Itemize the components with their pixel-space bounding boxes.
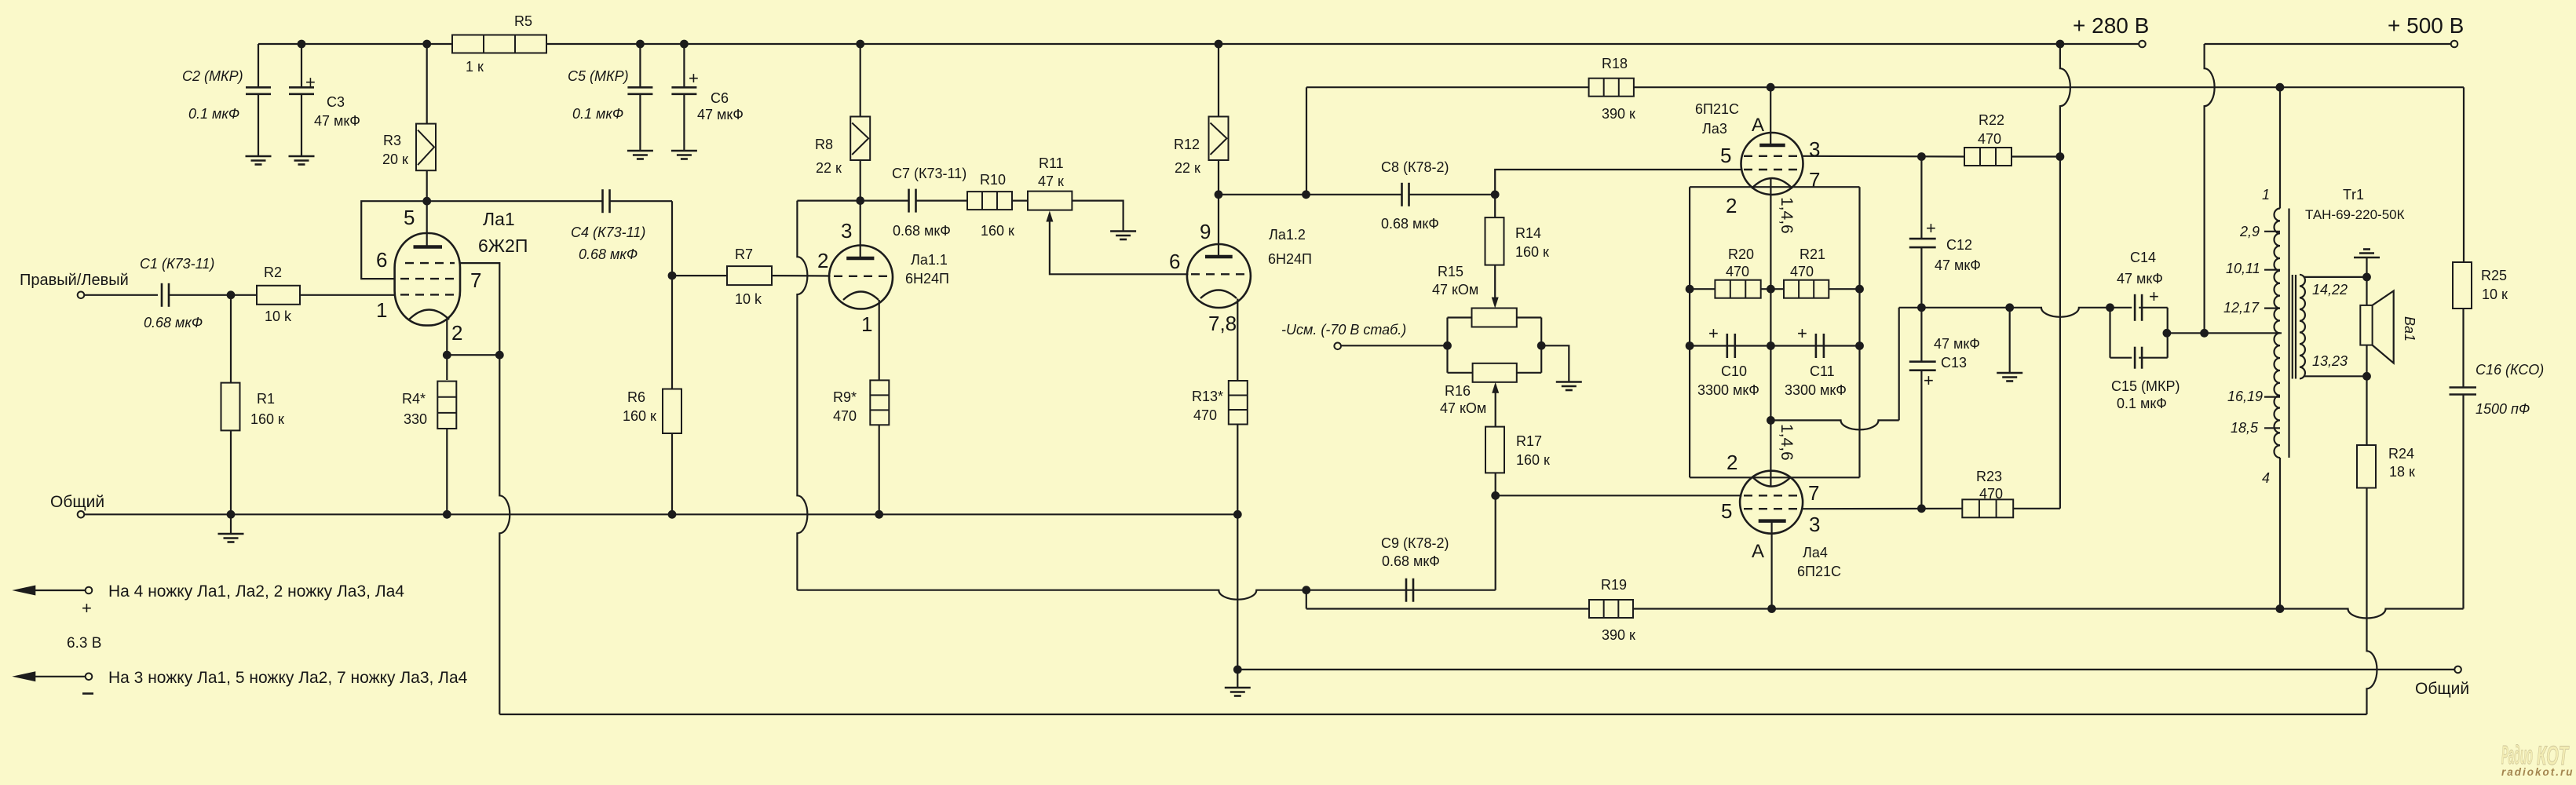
svg-text:+: +: [1708, 323, 1719, 343]
wire -Ucm to loop: [1341, 345, 1447, 346]
svg-text:160 к: 160 к: [250, 411, 284, 427]
wire R15/R16 loop: [1443, 318, 1546, 373]
wire R1 to common: [230, 430, 232, 514]
svg-text:R6: R6: [627, 389, 645, 405]
tube La3 cathode: [1752, 178, 1792, 188]
svg-text:2,9: 2,9: [2239, 224, 2260, 239]
svg-text:1500 пФ: 1500 пФ: [2476, 401, 2530, 417]
wire +500V riser to output node: [2205, 44, 2215, 333]
svg-text:Общий: Общий: [2415, 680, 2469, 698]
svg-text:R24: R24: [2388, 446, 2414, 462]
wire second rail (R18/R25 feed): [1306, 83, 2464, 195]
resistor R4: [437, 382, 456, 429]
label C14 plus: [2149, 287, 2159, 306]
svg-text:3: 3: [1809, 513, 1820, 536]
wire R25 to C16: [2462, 309, 2464, 388]
svg-text:470: 470: [1193, 407, 1217, 423]
tube La4 grids: [1744, 495, 1798, 509]
wire input to C1: [85, 294, 158, 296]
capacitor C12: [1909, 239, 1936, 308]
svg-text:0.68 мкФ: 0.68 мкФ: [1382, 553, 1440, 569]
svg-text:R15: R15: [1438, 264, 1463, 279]
label 6.3V: [67, 635, 101, 652]
capacitor C9: [1406, 579, 1413, 602]
svg-text:radiokot.ru: radiokot.ru: [2501, 766, 2574, 778]
resistor R18: [1589, 78, 1634, 97]
resistor R21: [1784, 280, 1829, 298]
wire R25 top: [2463, 87, 2465, 262]
svg-text:160 к: 160 к: [981, 223, 1014, 239]
heater note 1: [12, 582, 404, 618]
resistor R12 (trimmed): [1209, 117, 1229, 161]
svg-text:Ва1: Ва1: [2402, 316, 2417, 341]
label C13: [1934, 336, 1980, 371]
label R1: [250, 391, 284, 427]
svg-text:18 к: 18 к: [2389, 464, 2415, 480]
svg-text:9: 9: [1200, 220, 1211, 243]
wire R11 to ground: [1072, 201, 1123, 232]
label 1,4,6 upper: [1778, 197, 1796, 234]
label tap 12,17: [2223, 300, 2260, 316]
label R12: [1174, 137, 1200, 176]
watermark radiokot: [2501, 740, 2574, 778]
resistor R7: [727, 266, 772, 285]
transformer Tr1 primary: [2264, 87, 2296, 608]
capacitor C15: [2135, 347, 2142, 369]
ground C2: [246, 156, 272, 165]
svg-text:R5: R5: [514, 13, 532, 29]
wire R24 to feedback corner: [2367, 488, 2377, 715]
wire R19 row to C16 corner: [1633, 604, 2464, 618]
svg-text:47 мкФ: 47 мкФ: [2117, 271, 2163, 287]
wire R1 column: [230, 295, 232, 383]
capacitor C10: [1727, 334, 1735, 358]
label C16: [2476, 362, 2544, 417]
svg-text:R20: R20: [1728, 246, 1754, 262]
transformer Tr1 secondary: [2300, 275, 2367, 379]
ground R11: [1110, 232, 1136, 240]
wire R4 to common: [446, 429, 448, 514]
svg-text:160 к: 160 к: [623, 408, 656, 424]
label tap 10,11: [2226, 261, 2260, 276]
svg-text:7: 7: [1808, 481, 1819, 505]
svg-text:Тr1: Тr1: [2343, 187, 2364, 203]
wire R8 bottom to anode: [856, 160, 864, 258]
resistor R13: [1229, 381, 1248, 425]
tube La1.2 cathode: [1200, 290, 1237, 299]
node R7/R6 junction: [668, 272, 677, 280]
svg-text:14,22: 14,22: [2312, 282, 2348, 298]
tube La1.1 anode: [846, 257, 874, 261]
wire R6 column: [671, 276, 673, 389]
svg-text:390 к: 390 к: [1602, 627, 1635, 643]
ground C3: [289, 156, 315, 165]
capacitor C3: [289, 87, 314, 156]
svg-text:470: 470: [1726, 264, 1749, 279]
label C6: [697, 90, 744, 122]
svg-text:Ла1: Ла1: [483, 209, 515, 229]
label +280V: [2073, 13, 2149, 38]
svg-text:C1 (К73-11): C1 (К73-11): [140, 256, 214, 272]
svg-text:C11: C11: [1810, 363, 1835, 379]
wire R12 bottom to anode: [1215, 160, 1223, 257]
tube La1 cathode: [409, 310, 449, 320]
label Общий left: [50, 493, 104, 511]
svg-text:0.1 мкФ: 0.1 мкФ: [572, 106, 623, 122]
svg-text:2: 2: [1726, 451, 1737, 474]
svg-text:На 4 ножку Ла1, Ла2, 2 ножку Л: На 4 ножку Ла1, Ла2, 2 ножку Ла3, Ла4: [108, 582, 404, 601]
resistor R24: [2357, 445, 2376, 488]
label C4: [571, 225, 645, 262]
potentiometer R15: [1472, 309, 1517, 327]
pin 3 La3: [1809, 137, 1820, 161]
label Ba1: [2402, 316, 2417, 341]
resistor R5: [452, 35, 546, 53]
svg-text:Ла1.1: Ла1.1: [911, 252, 948, 268]
svg-text:+: +: [2149, 287, 2159, 306]
pin 1 La1: [376, 298, 387, 322]
svg-text:5: 5: [404, 206, 415, 229]
tube La1.1 cathode: [843, 292, 879, 301]
label C1 value: [140, 256, 214, 330]
ground C5: [627, 151, 653, 159]
svg-text:6Н24П: 6Н24П: [1268, 251, 1312, 267]
wire La1.1 cathode to R9: [879, 300, 880, 380]
pin 2 La1.1: [817, 249, 828, 272]
label A La4: [1752, 541, 1764, 562]
wire La1 pin2 to cathode bus: [446, 319, 448, 355]
wire anode La1.2 to C8: [1219, 190, 1401, 199]
svg-text:+: +: [1797, 323, 1807, 343]
wire loop to ground: [1541, 345, 1569, 382]
svg-text:+ 500 В: + 500 В: [2388, 13, 2464, 38]
label R25: [2481, 268, 2508, 302]
resistor R9: [870, 380, 889, 425]
wire R14 to R15 arrow: [1492, 265, 1499, 309]
svg-text:Ла1.2: Ла1.2: [1269, 227, 1306, 243]
svg-text:C9 (К78-2): C9 (К78-2): [1381, 535, 1449, 551]
label R22: [1978, 112, 2004, 147]
svg-text:C4 (К73-11): C4 (К73-11): [571, 225, 645, 240]
label C10: [1697, 363, 1759, 398]
label tap 18,5: [2231, 420, 2259, 436]
wire La1.2 cathode to R13: [1237, 299, 1238, 382]
svg-text:470: 470: [1979, 486, 2003, 502]
svg-text:R23: R23: [1976, 469, 2002, 484]
label C15: [2111, 378, 2180, 411]
svg-text:1: 1: [2262, 187, 2270, 203]
wire speaker bottom: [2362, 345, 2371, 381]
wire output to transformer: [2167, 329, 2282, 338]
svg-text:R17: R17: [1516, 433, 1542, 449]
resistor R6: [663, 389, 681, 434]
wire R10 to R11: [1012, 200, 1028, 202]
svg-text:Общий: Общий: [50, 493, 104, 511]
wire R23 to +280 column: [2013, 508, 2060, 509]
label R17: [1516, 433, 1550, 468]
label C11: [1785, 363, 1847, 398]
svg-text:R1: R1: [257, 391, 275, 407]
tube La3 envelope: [1741, 133, 1803, 195]
label -Ucm: [1281, 322, 1406, 338]
svg-text:7: 7: [470, 268, 481, 292]
wire R9 to common: [879, 425, 880, 514]
svg-text:6Ж2П: 6Ж2П: [478, 235, 528, 256]
label C3: [314, 94, 360, 129]
svg-text:1,4,6: 1,4,6: [1778, 424, 1796, 461]
label C6 plus: [689, 68, 699, 88]
ground output node: [1997, 373, 2022, 382]
svg-text:2: 2: [451, 321, 462, 345]
wire to ground (secondary): [2366, 257, 2367, 277]
wire C5 stem: [639, 44, 641, 87]
svg-text:20 к: 20 к: [382, 152, 408, 167]
label La4: [1797, 545, 1841, 579]
wire La3 anode: [1770, 87, 1771, 144]
label R3: [382, 133, 408, 167]
label C2: [182, 68, 243, 122]
label R19: [1601, 577, 1635, 643]
capacitor C8: [1402, 183, 1496, 206]
label tap 14,22: [2312, 282, 2348, 298]
wire La1 pin7 to cathode bus: [460, 263, 499, 355]
svg-text:7: 7: [1809, 168, 1820, 192]
tube La3 grids: [1744, 156, 1801, 170]
resistor R10: [967, 192, 1012, 210]
label R9: [833, 389, 857, 424]
potentiometer R16: [1473, 363, 1517, 382]
capacitor C11: [1816, 334, 1824, 358]
node +500V terminal: [2451, 41, 2458, 48]
ground common: [218, 514, 244, 542]
label tap 2,9: [2239, 224, 2260, 239]
svg-text:На 3 ножку Ла1, 5 ножку Ла2, 7: На 3 ножку Ла1, 5 ножку Ла2, 7 ножку Ла3…: [108, 669, 468, 687]
pin 1 La1.1: [861, 312, 872, 336]
resistor R22: [1964, 148, 2011, 166]
svg-text:C5 (МКР): C5 (МКР): [568, 68, 629, 84]
wire R4 column: [446, 355, 448, 380]
label C12: [1935, 237, 1981, 273]
svg-text:2: 2: [817, 249, 828, 272]
capacitor C16: [2450, 388, 2477, 395]
svg-text:C3: C3: [327, 94, 345, 110]
tube La1.2 anode: [1205, 255, 1233, 259]
svg-text:+: +: [1924, 371, 1934, 390]
wire R3 top: [426, 44, 428, 124]
ground output stage: [1225, 688, 1251, 696]
svg-text:R19: R19: [1601, 577, 1627, 593]
node C1/R2/R1 junction: [227, 290, 236, 299]
potentiometer R11: [1028, 192, 1072, 210]
svg-text:Правый/Левый: Правый/Левый: [20, 272, 129, 289]
svg-text:47 мкФ: 47 мкФ: [697, 107, 744, 122]
pin 5 La1: [404, 206, 415, 229]
wire junction to R2: [231, 294, 257, 296]
wire R22 to +280 column: [2011, 155, 2060, 157]
capacitor C6: [671, 87, 696, 151]
wire R12 top: [1218, 44, 1219, 117]
tube La1.1 grid: [834, 276, 888, 277]
label +500V: [2388, 13, 2464, 38]
node common terminal left: [78, 511, 85, 518]
label tap 4: [2262, 470, 2270, 486]
svg-text:3: 3: [841, 219, 852, 243]
svg-text:R18: R18: [1602, 56, 1628, 71]
svg-text:2: 2: [1726, 194, 1737, 217]
pin 2 La1: [451, 321, 462, 345]
capacitor C4: [603, 189, 673, 213]
label C8: [1381, 159, 1449, 232]
svg-text:R14: R14: [1515, 225, 1541, 241]
pin 7 La4: [1808, 481, 1819, 505]
svg-text:470: 470: [1790, 264, 1814, 279]
node C9 junction: [1302, 586, 1310, 594]
svg-text:160 к: 160 к: [1515, 244, 1549, 260]
resistor R20: [1715, 280, 1760, 298]
wire R17 to grid node: [1491, 473, 1500, 499]
wire cathode to output node: [1770, 308, 1898, 430]
wire La4 anode: [1771, 521, 1773, 609]
svg-text:0.1 мкФ: 0.1 мкФ: [2117, 396, 2167, 411]
resistor R17: [1485, 427, 1504, 473]
svg-text:C16 (КСО): C16 (КСО): [2476, 362, 2544, 378]
wire to La3 grid: [1495, 170, 1742, 195]
wire grid2 L-wire La1: [361, 201, 427, 279]
label C9: [1381, 535, 1449, 569]
wire La1 anode branch to C9 line: [797, 201, 1495, 600]
pin 5 La3: [1720, 144, 1731, 167]
wire La4 cathode stem: [1770, 485, 1771, 487]
resistor R2: [257, 286, 396, 305]
label La1.2: [1268, 227, 1312, 267]
label A La3: [1752, 115, 1764, 136]
svg-text:Радио: Радио: [2501, 740, 2533, 769]
svg-text:+: +: [82, 598, 92, 618]
heater note 2: [12, 669, 467, 694]
wire common rail: [85, 510, 1242, 519]
svg-text:C2 (МКР): C2 (МКР): [182, 68, 243, 84]
label C11 plus: [1797, 323, 1807, 343]
resistor R3 (trimmed): [416, 124, 436, 171]
wire La3 screen row: [1802, 152, 1964, 161]
svg-text:22 к: 22 к: [816, 160, 842, 176]
svg-text:330: 330: [404, 411, 427, 427]
wire to R24: [2366, 376, 2367, 445]
label La1.1: [905, 252, 949, 287]
capacitor C14: [2135, 294, 2142, 321]
svg-text:C10: C10: [1721, 363, 1747, 379]
label R14: [1515, 225, 1549, 260]
resistor R1: [221, 383, 240, 431]
label Правый/Левый: [20, 272, 129, 289]
svg-text:12,17: 12,17: [2223, 300, 2260, 316]
svg-text:6П21С: 6П21С: [1797, 564, 1841, 579]
svg-text:R16: R16: [1445, 383, 1471, 399]
svg-text:10 к: 10 к: [2482, 287, 2508, 302]
ground secondary: [2354, 250, 2380, 258]
capacitor C1: [162, 283, 231, 307]
node secondary top junction: [2362, 273, 2371, 282]
label R5: [466, 13, 532, 75]
capacitor C5: [627, 87, 652, 151]
svg-text:0.1 мкФ: 0.1 мкФ: [188, 106, 239, 122]
label R4: [402, 391, 427, 427]
svg-text:+: +: [305, 72, 316, 92]
pin 3 La4: [1809, 513, 1820, 536]
svg-text:R4*: R4*: [402, 391, 426, 407]
wire C6 stem: [683, 44, 685, 87]
wire C4 corner to R7 node: [671, 201, 673, 276]
ground R15/R16: [1556, 382, 1582, 391]
wire to R7: [672, 275, 727, 276]
svg-text:C12: C12: [1946, 237, 1972, 253]
capacitor C7: [909, 189, 968, 213]
label La1: [478, 209, 528, 256]
label tap 13,23: [2312, 353, 2348, 369]
node -Ucm terminal: [1334, 343, 1341, 350]
tube La4 envelope: [1740, 471, 1803, 534]
wire C16 bottom: [2462, 395, 2464, 609]
capacitor C13: [1909, 308, 1936, 509]
tube La4 cathode: [1753, 477, 1791, 486]
pin 2 La4: [1726, 451, 1737, 474]
wire R8 top: [860, 44, 861, 117]
node common terminal right: [2454, 666, 2461, 674]
label R21: [1790, 246, 1825, 279]
label R15: [1432, 264, 1478, 298]
svg-text:C7 (К73-11): C7 (К73-11): [892, 166, 966, 181]
label R20: [1726, 246, 1754, 279]
svg-text:А: А: [1752, 541, 1764, 562]
wire output node row: [1899, 303, 2114, 316]
label R23: [1976, 469, 2003, 502]
wire +280V top rail: [258, 40, 2139, 49]
wire grid node down to C9 line: [1495, 495, 1496, 590]
svg-text:0.68 мкФ: 0.68 мкФ: [1381, 216, 1439, 232]
label C3 plus: [305, 72, 316, 92]
svg-text:47 мкФ: 47 мкФ: [314, 113, 360, 129]
svg-text:47 мкФ: 47 мкФ: [1935, 257, 1981, 273]
pin 7 La3: [1809, 168, 1820, 192]
wire R20/R21 row: [1690, 288, 1859, 290]
svg-text:6: 6: [376, 248, 387, 272]
label R2: [264, 265, 292, 324]
pin 9 La1.2: [1200, 220, 1211, 243]
svg-text:3: 3: [1809, 137, 1820, 161]
label tap 16,19: [2227, 389, 2263, 404]
label 1,4,6 lower: [1778, 424, 1796, 461]
label Общий right: [2415, 680, 2469, 698]
wire R3 bottom to anode node: [426, 170, 428, 201]
tube La3 anode bar: [1759, 144, 1785, 148]
resistor R19: [1589, 600, 1633, 618]
node +280V terminal: [2139, 41, 2146, 48]
node C8/R14 junction: [1491, 190, 1500, 199]
wire R7 to La1.1 grid: [772, 275, 831, 277]
svg-text:C6: C6: [711, 90, 729, 106]
svg-text:4: 4: [2262, 470, 2270, 486]
wire R14 top: [1494, 195, 1496, 217]
wire La4 screen row: [1802, 504, 1963, 513]
wire C2 stem: [258, 44, 259, 87]
svg-text:C14: C14: [2130, 250, 2156, 265]
svg-text:47 к: 47 к: [1038, 173, 1064, 189]
svg-text:R21: R21: [1800, 246, 1825, 262]
label Tr1: [2305, 187, 2405, 222]
pin 2 La3: [1726, 194, 1737, 217]
svg-text:R13*: R13*: [1192, 389, 1223, 404]
svg-text:47 кОм: 47 кОм: [1440, 400, 1486, 416]
